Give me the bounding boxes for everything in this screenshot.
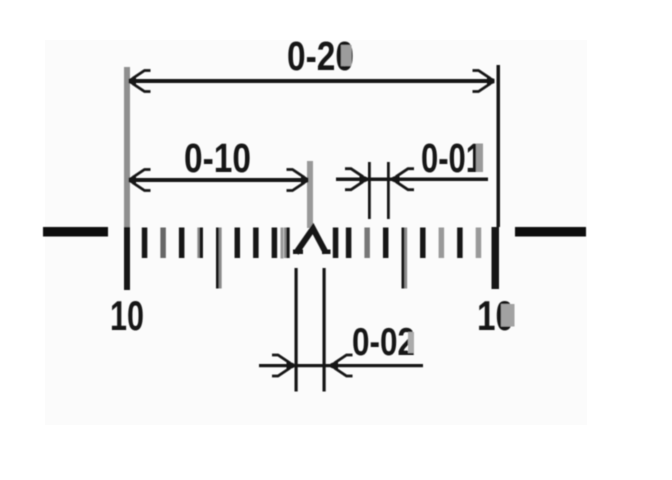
svg-text:10: 10 [110,292,144,339]
svg-text:0-02: 0-02 [352,321,415,364]
svg-text:0-10: 0-10 [184,135,251,181]
svg-text:0-01: 0-01 [421,135,483,181]
